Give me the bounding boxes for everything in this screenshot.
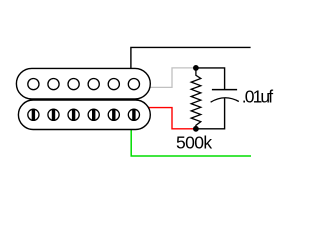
svg-text:500k: 500k: [176, 133, 212, 153]
svg-text:.01uf: .01uf: [242, 87, 273, 107]
